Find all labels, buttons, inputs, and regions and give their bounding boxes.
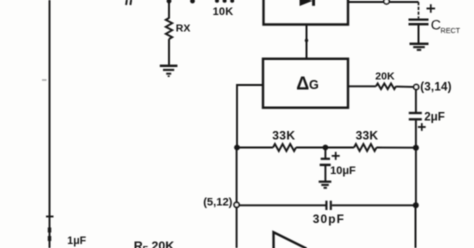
svg-text:RF 20K: RF 20K bbox=[134, 239, 175, 248]
ground under Crect bbox=[410, 44, 429, 50]
svg-text:20K: 20K bbox=[375, 70, 395, 82]
svg-text:(3,14): (3,14) bbox=[420, 81, 452, 94]
wire top box to DeltaG box bbox=[306, 25, 308, 59]
svg-text:30pF: 30pF bbox=[313, 212, 345, 226]
capacitor Crect plates bbox=[409, 18, 429, 20]
terminal circle on top wire bbox=[384, 0, 389, 4]
svg-text:2μF: 2μF bbox=[424, 110, 445, 123]
node dot on cut top wire bbox=[190, 0, 195, 3]
svg-text:1μF: 1μF bbox=[67, 235, 86, 247]
right rail 33K row down to 30pF row bbox=[415, 148, 417, 206]
capacitor 30pF plates bbox=[325, 201, 327, 210]
junction dot right end of 33K row bbox=[413, 145, 419, 151]
wire DeltaG output to 20K bbox=[348, 85, 376, 87]
plus sign for Crect bbox=[427, 4, 436, 13]
svg-text:(5,12): (5,12) bbox=[203, 197, 232, 209]
plus sign for 10uF bbox=[332, 152, 340, 160]
potentiometer 10K zigzag tips (cut at top edge) bbox=[215, 0, 234, 3]
svg-text:C: C bbox=[431, 17, 441, 33]
wire from top edge to resistor RX bbox=[168, 0, 170, 19]
resistor 33K #2 zigzag bbox=[354, 144, 377, 151]
terminal circle node (5,12) bbox=[234, 202, 239, 207]
wire 33K #2 to right rail bbox=[377, 147, 416, 149]
terminal circle node (3,14) bbox=[414, 85, 419, 90]
op-amp U2 triangle (cut at bottom edge) bbox=[274, 232, 307, 248]
capacitor C (1uF) body bulges on left rail bbox=[48, 228, 51, 233]
wire node (5,12) to 30pF bbox=[239, 204, 325, 206]
capacitor top-left plate tips (cut wire marks) bbox=[126, 0, 131, 5]
svg-text:RECT: RECT bbox=[441, 26, 461, 35]
junction dot left end of 33K row bbox=[234, 145, 240, 151]
wire 20K to node (3,14) bbox=[396, 86, 414, 88]
plus sign for 2uF bbox=[418, 123, 426, 131]
ground under 10uF bbox=[319, 182, 332, 188]
wire to 33K #1 bbox=[237, 147, 273, 149]
resistor 20K zigzag bbox=[376, 84, 396, 90]
wire mid-left rail down to node (5,12) and bottom bbox=[236, 148, 238, 248]
wire Crect to ground bbox=[418, 25, 420, 43]
svg-text:33K: 33K bbox=[272, 129, 295, 143]
wire 30pF to right rail bbox=[332, 204, 414, 206]
svg-text:33K: 33K bbox=[356, 129, 379, 143]
capacitor C (1uF) plate tick on left rail bbox=[46, 216, 54, 218]
diode D1 inside top box (cut) bbox=[300, 0, 313, 6]
wire 2uF down to 33K row bbox=[415, 120, 417, 147]
svg-text:10K: 10K bbox=[213, 6, 234, 18]
junction dot right end of 30pF row bbox=[413, 202, 419, 208]
wire node (3,14) down to 2uF bbox=[415, 90, 417, 113]
resistor 33K #1 zigzag bbox=[273, 144, 296, 151]
resistor RX zigzag bbox=[166, 18, 172, 39]
wire corner down to Crect (faded/dashed in scan) bbox=[418, 2, 420, 18]
capacitor 2uF plates bbox=[409, 112, 422, 114]
wire junction to 10uF bbox=[324, 148, 326, 159]
wire 33K #1 to junction bbox=[296, 147, 354, 149]
wire 10uF to ground bbox=[324, 166, 326, 181]
svg-text:RX: RX bbox=[176, 23, 191, 35]
block DeltaG box bbox=[263, 59, 348, 108]
junction dot 10uF tap bbox=[323, 145, 329, 151]
junction blob on that wire bbox=[305, 39, 308, 42]
faint tick artifact on left rail bbox=[42, 79, 47, 81]
ground under RX bbox=[160, 66, 178, 76]
capacitor 10uF plates bbox=[321, 158, 330, 160]
svg-text:10μF: 10μF bbox=[330, 165, 356, 177]
svg-text:Δ: Δ bbox=[296, 74, 309, 94]
wire DeltaG input from left rail bbox=[237, 85, 263, 148]
svg-text:G: G bbox=[309, 78, 319, 92]
node dot at top of RX wire bbox=[167, 0, 172, 3]
block U1 (top box, cut at top edge) bbox=[264, 0, 349, 25]
wire left vertical rail bbox=[49, 0, 51, 248]
wire RX to ground bbox=[168, 39, 170, 65]
right rail to bottom edge bbox=[415, 205, 417, 248]
wire top box right edge to Crect bbox=[348, 1, 419, 3]
